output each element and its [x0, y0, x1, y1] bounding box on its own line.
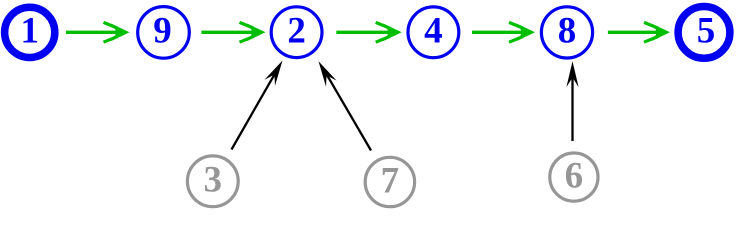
node 3 (gray circle) [187, 156, 238, 207]
wire: green arrow 2->4 [336, 22, 401, 42]
wire: green arrow 9->2 [201, 22, 265, 42]
svg-text:4: 4 [424, 11, 443, 52]
node 9 [138, 7, 190, 59]
wire: black arrow 6->8 [566, 61, 578, 141]
node 7 (gray circle) [365, 157, 414, 206]
svg-text:1: 1 [20, 11, 39, 52]
svg-text:3: 3 [204, 160, 223, 201]
svg-text:8: 8 [558, 11, 577, 52]
svg-text:6: 6 [565, 155, 584, 196]
svg-text:2: 2 [287, 11, 306, 52]
wire: green arrow 1->9 [66, 22, 130, 42]
node 6 (gray circle) [550, 153, 598, 201]
wire: green arrow 8->5 [608, 22, 670, 42]
node 8 [541, 7, 592, 58]
wire: green arrow 4->8 [472, 22, 535, 42]
svg-text:7: 7 [381, 160, 400, 201]
wire: black arrow 7->2 [313, 58, 371, 150]
svg-text:5: 5 [697, 11, 716, 52]
node 2 [271, 7, 322, 58]
svg-text:9: 9 [153, 11, 172, 52]
node 1 (start state, bold blue circle) [5, 7, 55, 57]
node 5 (end state, bold blue circle) [678, 7, 730, 59]
node 4 [408, 7, 459, 58]
wire: black arrow 3->2 [232, 57, 288, 149]
